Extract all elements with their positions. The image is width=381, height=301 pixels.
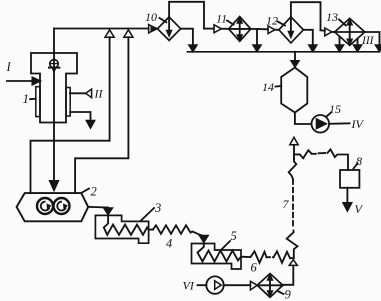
recycle wire A (down, left, into vessel 2) bbox=[31, 37, 110, 192]
motor circle on vessel 1 bbox=[50, 60, 58, 68]
svg-text:2: 2 bbox=[91, 185, 97, 199]
node triangle top of line 7 bbox=[290, 137, 298, 145]
coil in 5 bbox=[198, 244, 242, 262]
arrow into heater 5 bbox=[199, 235, 209, 243]
wire 2 to cooler 3 bbox=[88, 207, 108, 210]
svg-text:VI: VI bbox=[183, 279, 195, 293]
node triangle bottom of line 7 bbox=[289, 260, 297, 266]
wire loop to 11 bbox=[204, 28, 214, 30]
bypass loop over 12 bbox=[291, 2, 321, 30]
svg-text:V: V bbox=[355, 202, 364, 216]
rotor arc right bbox=[57, 202, 65, 211]
stream II triangle bbox=[86, 89, 92, 98]
wire into 11 bbox=[222, 28, 229, 30]
svg-text:12: 12 bbox=[266, 14, 278, 28]
vent arrow bbox=[86, 120, 95, 128]
wire into 12 bbox=[275, 29, 279, 31]
line through motor circle bbox=[50, 63, 59, 65]
injector triangle into 13 bbox=[325, 28, 332, 36]
label 10 tick bbox=[160, 18, 167, 22]
wire into 13 bbox=[332, 31, 335, 33]
stream V arrow bbox=[343, 203, 353, 212]
bypass loop over 10 bbox=[169, 2, 204, 29]
svg-text:6: 6 bbox=[251, 261, 258, 275]
vent line from right jacket bbox=[70, 112, 91, 122]
throttle 6 (zigzag with dash) bbox=[241, 251, 267, 262]
rotor arc left bbox=[41, 202, 49, 211]
wire 11 to 12 bbox=[251, 28, 268, 30]
wire loop to 13 bbox=[321, 29, 325, 32]
label 1 tick bbox=[30, 98, 36, 100]
through line in 13 bbox=[335, 31, 365, 33]
wire VI to pump bbox=[198, 284, 207, 286]
svg-text:9: 9 bbox=[285, 288, 292, 301]
svg-text:8: 8 bbox=[356, 154, 362, 168]
collector line bbox=[188, 51, 380, 53]
svg-text:IV: IV bbox=[351, 117, 365, 131]
node triangle A on overhead line bbox=[105, 30, 114, 37]
recycle wire B (down, left, into vessel 2) bbox=[75, 37, 128, 192]
label 12 tick bbox=[278, 22, 286, 26]
feed arrow into vessel 2 bbox=[49, 181, 59, 192]
wire 15 to IV bbox=[329, 122, 349, 125]
right jacket of vessel 1 bbox=[66, 88, 70, 117]
cooler 3 (box with coil) bbox=[95, 215, 148, 243]
main overhead line bbox=[54, 28, 149, 30]
label 3 tick bbox=[141, 208, 154, 221]
pump VI (circle with triangle) bbox=[206, 276, 223, 293]
drain wire right under 13 bbox=[357, 39, 359, 47]
double arrow inside 11 bbox=[239, 20, 241, 38]
drain wire left under 13 bbox=[339, 37, 341, 47]
compressor 11 (diamond) bbox=[229, 17, 251, 42]
central axis line through vessel 1 down to vessel 2 bbox=[53, 29, 55, 186]
condenser 10 (diamond) bbox=[158, 17, 181, 40]
throttle 4 (zigzag) bbox=[153, 225, 204, 236]
double arrow inside 13 bbox=[349, 22, 351, 42]
branch arrow bbox=[253, 45, 262, 52]
arrow onto collector from 12 bbox=[308, 45, 317, 52]
arrow into cooler 3 bbox=[103, 208, 113, 215]
label 11 tick bbox=[227, 21, 234, 25]
through line in 9 bbox=[257, 284, 283, 286]
line 7 dashed middle bbox=[292, 180, 294, 230]
label 13 tick bbox=[339, 20, 346, 26]
stream V wire bbox=[346, 188, 348, 204]
svg-text:III: III bbox=[361, 35, 375, 47]
wire pump to injector 9 bbox=[224, 284, 251, 286]
rotor circle left in 2 bbox=[37, 198, 53, 214]
wire 9 outlet up to line 7 bbox=[283, 265, 294, 284]
vessel 1 (reactor body, T-shape) bbox=[31, 53, 77, 123]
feed wire to vessel 14 bbox=[294, 52, 296, 63]
condenser 8 (box) bbox=[340, 170, 359, 188]
injector triangle into 11 bbox=[214, 25, 222, 33]
svg-text:I: I bbox=[6, 60, 12, 74]
svg-text:1: 1 bbox=[23, 91, 30, 106]
wire 10 to collector bbox=[181, 29, 193, 46]
svg-text:14: 14 bbox=[262, 80, 274, 94]
rotor triangle inside 15 bbox=[316, 119, 327, 129]
arrow inside 12 bbox=[290, 17, 292, 33]
drain arrow left under 13 bbox=[335, 45, 344, 52]
svg-text:10: 10 bbox=[145, 10, 157, 24]
wire below triangle bbox=[293, 145, 295, 159]
feed arrow into 14 bbox=[291, 61, 300, 68]
flange bar under motor circle bbox=[49, 67, 59, 69]
small arrow under flange bbox=[52, 69, 55, 73]
drain arrow right under 13 bbox=[353, 45, 362, 52]
rotor circle right in 2 bbox=[54, 198, 70, 214]
through line in 11 bbox=[229, 28, 251, 30]
svg-text:II: II bbox=[94, 87, 104, 101]
label 9 tick bbox=[278, 291, 284, 294]
stream I arrow bbox=[32, 77, 41, 85]
wire 14 to pump 15 bbox=[295, 113, 312, 125]
svg-text:5: 5 bbox=[231, 229, 237, 243]
arrow right end bbox=[375, 45, 381, 52]
flow arrow into 10 bbox=[151, 26, 158, 32]
line 7 upper zigzag bbox=[289, 159, 297, 179]
triangle inside pump bbox=[215, 281, 222, 290]
compressor 13 (diamond) bbox=[335, 18, 365, 45]
svg-text:4: 4 bbox=[166, 237, 172, 251]
label 14 tick bbox=[276, 85, 282, 88]
double arrow inside 9 bbox=[269, 277, 271, 294]
heater 5 (box with coil) bbox=[192, 244, 242, 270]
label 5 tick bbox=[221, 241, 230, 250]
saturator 9 (diamond) bbox=[257, 274, 283, 298]
injector triangle into 12 bbox=[268, 26, 275, 34]
wire 12 to collector bbox=[303, 30, 312, 46]
svg-text:13: 13 bbox=[326, 10, 338, 24]
pump 15 (circle) bbox=[312, 115, 330, 133]
label 2 tick bbox=[82, 189, 89, 193]
label 15 tick bbox=[327, 113, 332, 117]
stream I line bbox=[7, 80, 34, 82]
svg-text:11: 11 bbox=[216, 12, 227, 26]
vessel 2 (horizontal hexagon) bbox=[17, 193, 89, 221]
branch wire down to collector bbox=[256, 29, 258, 46]
vessel 14 (hexagon) bbox=[281, 68, 307, 113]
arrow inside 10 bbox=[168, 17, 170, 32]
separator 12 (diamond) bbox=[279, 17, 304, 43]
node triangle B on overhead line bbox=[124, 30, 133, 37]
left jacket of vessel 1 bbox=[36, 87, 40, 117]
coil in 3 bbox=[104, 215, 153, 234]
injector triangle into 9 bbox=[250, 281, 257, 290]
stream II line bbox=[70, 92, 86, 94]
label 8 tick bbox=[354, 164, 358, 169]
svg-text:7: 7 bbox=[283, 197, 290, 211]
branch to condenser 8 with throttle humps bbox=[294, 150, 316, 158]
injector triangle into 10 bbox=[149, 25, 157, 34]
wire 13 to collector right end bbox=[365, 32, 380, 46]
arrow onto collector from 10 bbox=[188, 45, 197, 52]
line 7 lower zigzag bbox=[287, 231, 298, 259]
